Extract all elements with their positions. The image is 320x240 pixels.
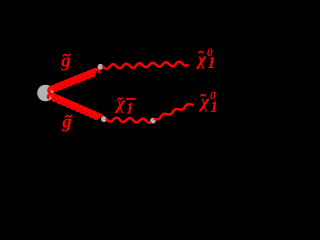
- vertex dot chargino decay: [150, 118, 156, 124]
- gluino line top: curls: [49, 69, 100, 93]
- chargino wavy line: [107, 118, 151, 123]
- gluino line top: straight core: [51, 72, 97, 91]
- vertex dot bottom: [101, 116, 107, 122]
- neutralino wavy line bottom right: [155, 104, 193, 119]
- svg-text:1: 1: [210, 99, 218, 116]
- gluino line bottom: straight core: [51, 96, 101, 118]
- label chi~01 bottom right: tilde: [200, 94, 206, 96]
- label chi~01 top right: tilde: [198, 51, 204, 53]
- label g~ top: tilde: [63, 54, 70, 57]
- gluino line bottom: curls: [48, 94, 103, 120]
- neutralino wavy line top: [103, 62, 187, 69]
- svg-text:1: 1: [126, 101, 134, 118]
- svg-text:g: g: [61, 112, 72, 133]
- interaction blob: [37, 85, 54, 102]
- svg-text:1: 1: [207, 53, 216, 72]
- label g~ bottom: tilde: [65, 115, 72, 118]
- label chi~-1 chargino: superscript minus: [126, 98, 135, 100]
- label chi~-1 chargino: tilde: [117, 98, 122, 100]
- vertex dot top: [98, 64, 104, 70]
